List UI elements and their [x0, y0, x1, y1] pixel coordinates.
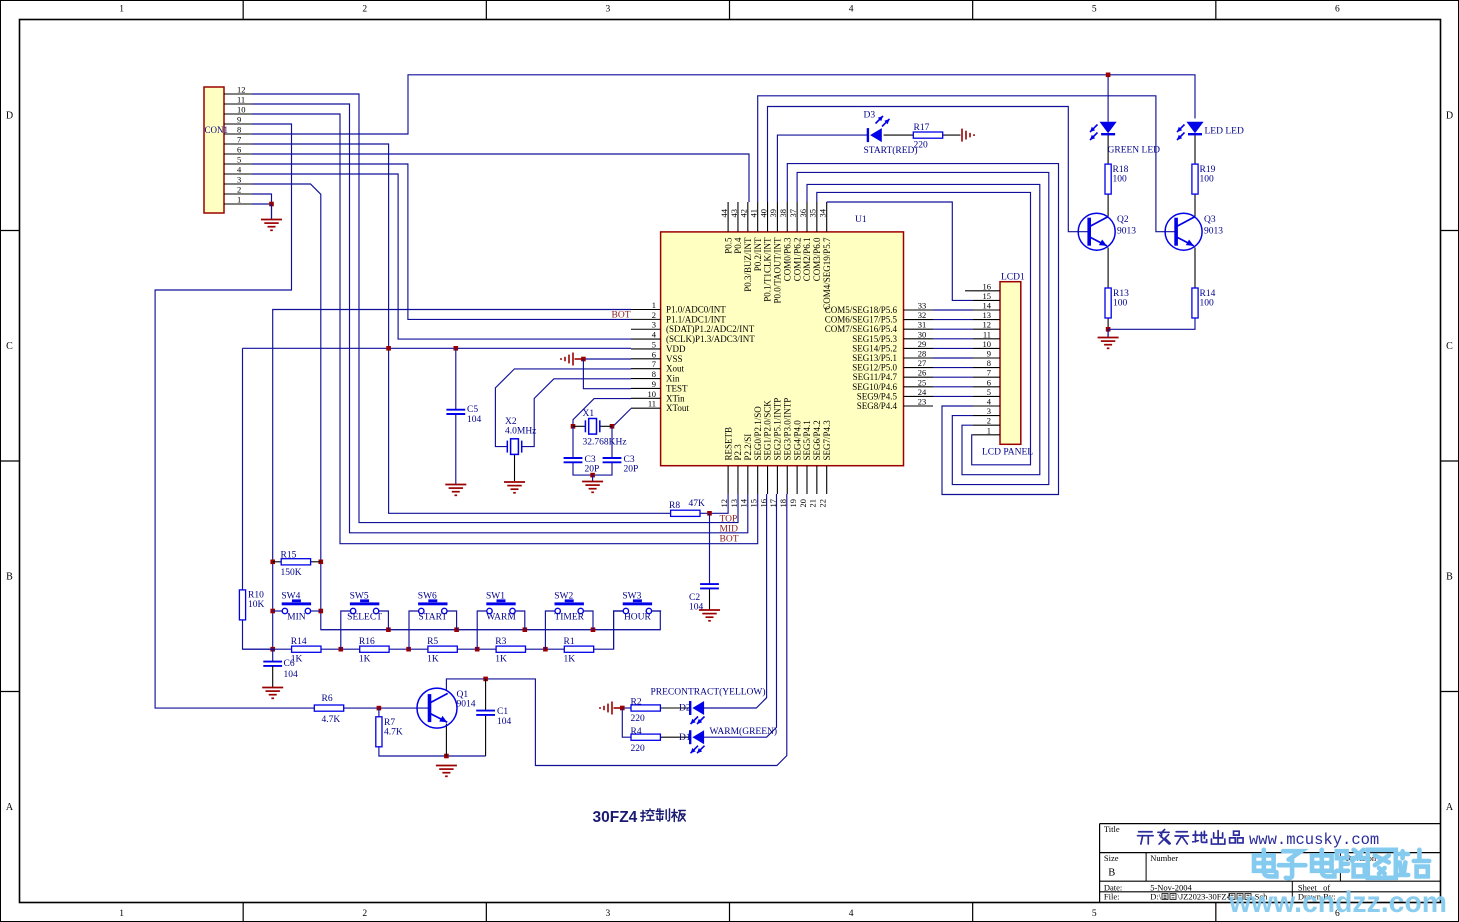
svg-text:25: 25 [918, 377, 927, 387]
svg-text:2: 2 [362, 5, 367, 15]
wire Q2 emitter to R13 [1107, 248, 1109, 288]
svg-text:5: 5 [987, 387, 991, 397]
wire U1 p8 Xin to X2 [522, 379, 631, 447]
svg-text:P0.0/TAOUT/INT: P0.0/TAOUT/INT [773, 237, 783, 304]
svg-text:100: 100 [1200, 299, 1215, 309]
svg-text:2: 2 [987, 416, 991, 426]
wire R13 to ground junction [1107, 319, 1109, 330]
svg-text:Size: Size [1104, 853, 1119, 863]
svg-text:MIN: MIN [287, 613, 306, 623]
svg-text:39: 39 [768, 209, 778, 218]
svg-text:R10: R10 [248, 591, 264, 601]
wire U1 p40 to Q2 base [768, 107, 1091, 232]
junction Q1 emitter [444, 754, 449, 759]
switch SW1 [486, 602, 515, 605]
wire R18 to Q2 collector [1107, 194, 1109, 216]
junction X1 right [610, 424, 615, 429]
svg-text:C2: C2 [689, 593, 700, 603]
svg-text:START: START [418, 613, 447, 623]
svg-text:P2.3: P2.3 [733, 444, 743, 461]
wire C5 to ground [455, 414, 457, 484]
junction RC row 2 [475, 647, 480, 652]
capacitor C3 right [603, 458, 622, 462]
svg-text:9014: 9014 [457, 700, 476, 710]
svg-text:SEG14/P5.2: SEG14/P5.2 [852, 343, 897, 353]
wire D1 to R4 [661, 736, 691, 738]
svg-text:6: 6 [987, 377, 991, 387]
svg-text:3: 3 [652, 320, 656, 330]
svg-text:22: 22 [818, 499, 828, 508]
resistor R15 [281, 559, 310, 565]
wire CON1 p11 to MID row to U1 p14 [252, 104, 748, 533]
junction RC row 3 [543, 647, 548, 652]
wire switch 4 right drop [584, 611, 594, 630]
svg-text:30FZ4: 30FZ4 [593, 809, 638, 826]
svg-text:1K: 1K [495, 655, 507, 665]
junction key bus 1 [454, 627, 459, 632]
svg-text:D: D [1446, 110, 1453, 121]
led GREEN arrows [1090, 125, 1098, 133]
title block grid and fields [1100, 823, 1440, 825]
wire R2 left to junction [622, 707, 631, 709]
resistor R5 [428, 646, 457, 652]
wire CON1 p5 to U1 p2 BOT [252, 164, 631, 319]
svg-text:SEG9/P4.5: SEG9/P4.5 [857, 391, 898, 401]
svg-text:BOT: BOT [612, 311, 631, 321]
wire C5 column [455, 348, 457, 409]
svg-text:1K: 1K [564, 655, 576, 665]
ic U1 body [661, 232, 904, 466]
svg-text:P0.2/INT: P0.2/INT [753, 237, 763, 271]
svg-text:40: 40 [758, 209, 768, 218]
svg-text:SW6: SW6 [418, 592, 437, 602]
svg-text:B: B [6, 571, 13, 582]
wire R6 to Q1 base [344, 707, 431, 709]
svg-text:PRECONTRACT(YELLOW): PRECONTRACT(YELLOW) [651, 687, 766, 698]
svg-text:26: 26 [918, 368, 927, 378]
junction RC row 0 [339, 647, 344, 652]
wire C3 left column [572, 426, 574, 458]
wire R10 bottom to RC row [243, 620, 273, 649]
wire Q3 emitter to R14 [1194, 248, 1196, 288]
svg-text:11: 11 [237, 95, 245, 105]
wire R17 to signal ground [943, 134, 961, 136]
svg-text:2: 2 [237, 185, 241, 195]
resistor R18 [1105, 164, 1111, 194]
svg-text:10: 10 [237, 105, 246, 115]
wire CON1 p7 down to R8 RESET net [252, 144, 671, 513]
resistor R16 [360, 646, 389, 652]
ground under C5 [445, 485, 466, 496]
svg-text:TOP: TOP [720, 515, 738, 525]
svg-text:R4: R4 [631, 727, 642, 737]
wire X1 right lead [600, 425, 612, 427]
svg-text:R2: R2 [631, 698, 642, 708]
svg-text:19: 19 [788, 499, 798, 508]
junction emitter ground [1106, 327, 1111, 332]
connector CON1 [204, 87, 224, 213]
svg-text:8: 8 [652, 369, 656, 379]
wire C6 top [272, 649, 274, 661]
svg-text:104: 104 [467, 415, 482, 425]
wire VSS to TEST [583, 359, 631, 389]
wire LCD p16 stub [965, 290, 973, 292]
svg-text:C1: C1 [497, 707, 508, 717]
wire GREEN LED to R18 [1107, 135, 1109, 165]
svg-text:7: 7 [987, 368, 991, 378]
svg-text:D:\: D:\ [1150, 892, 1162, 902]
svg-text:3: 3 [606, 909, 611, 919]
svg-text:6: 6 [1335, 5, 1340, 15]
wire C1 bottom [485, 715, 487, 756]
svg-text:A: A [6, 802, 14, 813]
svg-text:9: 9 [987, 349, 991, 359]
svg-text:SW4: SW4 [281, 592, 300, 602]
svg-text:1: 1 [237, 195, 241, 205]
svg-text:B: B [1108, 868, 1115, 879]
wire U1 p26 to LCD p7 [933, 376, 973, 378]
svg-text:104: 104 [497, 717, 512, 727]
led LEDLED arrows [1177, 125, 1185, 133]
wire CON1 p10 to BOT row to U1 p15 [252, 114, 758, 544]
junction CON1 ground [269, 202, 274, 207]
wire X1 left lead [573, 425, 585, 427]
signal ground at VSS [575, 358, 584, 360]
junction X1 left [571, 424, 576, 429]
connector LCD1 body [1000, 282, 1021, 445]
wire U1 p17 to D1 [704, 494, 777, 737]
svg-text:WARM: WARM [486, 613, 516, 623]
svg-text:Xout: Xout [666, 364, 684, 374]
svg-text:6: 6 [237, 145, 241, 155]
svg-text:XTout: XTout [666, 403, 689, 413]
svg-text:8: 8 [987, 358, 991, 368]
svg-text:SW1: SW1 [486, 592, 505, 602]
wire U1 p6 VSS to bar ground [583, 358, 631, 360]
svg-text:HOUR: HOUR [624, 613, 652, 623]
svg-text:SEG2/P5.1/INTP: SEG2/P5.1/INTP [773, 398, 783, 461]
ground under R13 [1107, 329, 1109, 337]
wire p34 route [827, 202, 973, 300]
svg-text:5: 5 [237, 155, 241, 165]
U1 left pins 1-11 [631, 309, 661, 311]
resistor R10 [239, 590, 245, 620]
svg-text:9013: 9013 [1117, 227, 1136, 237]
svg-text:D1: D1 [679, 733, 691, 743]
svg-text:R18: R18 [1113, 165, 1129, 175]
junction SW4 left [270, 609, 275, 614]
wire rail branch to GREEN LED [1107, 75, 1109, 122]
title text: kaifatiandi chupin www.mcusky.com [1138, 832, 1154, 844]
junction SW4 right [319, 609, 324, 614]
wire CON1 p2 to ground junction [252, 194, 272, 204]
svg-text:1: 1 [987, 425, 991, 435]
svg-text:SW2: SW2 [554, 592, 573, 602]
svg-text:100: 100 [1200, 175, 1215, 185]
wire RC row [243, 611, 626, 649]
wire VDD row U1 p5 [243, 347, 632, 349]
led GREEN [1100, 122, 1117, 133]
led D3 [867, 128, 869, 142]
transistor Q3 [1165, 213, 1202, 250]
wire C3 ground rail [573, 462, 612, 475]
svg-text:29: 29 [918, 339, 927, 349]
svg-text:Number: Number [1150, 853, 1178, 863]
svg-text:5: 5 [652, 339, 656, 349]
wire U1 p38 to LCD p4 [787, 164, 1058, 495]
svg-text:42: 42 [739, 209, 749, 218]
transistor Q2 [1078, 213, 1115, 250]
svg-text:SEG6/P4.2: SEG6/P4.2 [812, 420, 822, 460]
svg-text:220: 220 [914, 141, 929, 151]
svg-text:16: 16 [983, 281, 992, 291]
svg-text:24: 24 [918, 387, 927, 397]
svg-text:XTin: XTin [666, 393, 685, 403]
wire U1 p30 to LCD p11 [933, 338, 973, 340]
svg-text:R15: R15 [281, 551, 297, 561]
svg-text:14: 14 [983, 301, 992, 311]
resistor R4 [631, 734, 660, 740]
svg-text:LCD PANEL: LCD PANEL [982, 448, 1033, 458]
svg-text:100: 100 [1113, 299, 1128, 309]
svg-text:TEST: TEST [666, 383, 688, 393]
switch SW4 [282, 602, 311, 605]
svg-text:R5: R5 [427, 637, 438, 647]
crystal X1 [585, 419, 599, 435]
svg-text:Xin: Xin [666, 374, 680, 384]
resistor R14 right [1192, 288, 1198, 318]
wire U1 p24 to LCD p5 [933, 395, 973, 397]
svg-text:COM0/P6.3: COM0/P6.3 [782, 237, 792, 281]
svg-text:R13: R13 [1113, 289, 1129, 299]
capacitor C1 [476, 711, 495, 715]
svg-text:7: 7 [237, 135, 241, 145]
switch SW3 [623, 602, 652, 605]
svg-text:1K: 1K [427, 655, 439, 665]
svg-text:SEG5/P4.1: SEG5/P4.1 [802, 420, 812, 460]
svg-text:34: 34 [818, 208, 828, 217]
wire U1 p31 to LCD p12 [933, 328, 973, 330]
wire Q1 emitter down [445, 724, 447, 757]
svg-text:D2: D2 [679, 704, 691, 714]
svg-text:P0.5: P0.5 [723, 237, 733, 254]
svg-text:www.cndzz.com: www.cndzz.com [1228, 886, 1447, 919]
svg-text:COM5/SEG18/P5.6: COM5/SEG18/P5.6 [825, 305, 898, 315]
svg-text:47K: 47K [689, 499, 706, 509]
svg-text:15: 15 [983, 291, 992, 301]
svg-text:28: 28 [918, 349, 927, 359]
svg-text:13: 13 [729, 499, 739, 508]
svg-text:SW3: SW3 [622, 592, 641, 602]
svg-text:COM3/P6.0: COM3/P6.0 [812, 237, 822, 281]
wire U1 p36 to LCD p2 [807, 184, 1040, 474]
svg-text:SEG11/P4.7: SEG11/P4.7 [853, 372, 898, 382]
wire CON1 p6 to U1 p42 [252, 154, 749, 202]
wire U1 p32 to LCD p13 [933, 319, 973, 321]
junction R7 top [377, 706, 382, 711]
wire LED LED to R19 [1194, 135, 1196, 165]
svg-text:1: 1 [119, 909, 124, 919]
svg-text:10: 10 [648, 389, 657, 399]
wire R8 to U1 p12 [700, 494, 728, 513]
resistor R3 [496, 646, 525, 652]
capacitor C3 left [564, 458, 583, 462]
svg-text:220: 220 [631, 714, 646, 724]
ground under X2 [504, 482, 525, 493]
svg-text:20P: 20P [624, 465, 639, 475]
svg-text:41: 41 [748, 209, 758, 218]
resistor R8 [671, 510, 700, 516]
capacitor C6 [263, 662, 282, 666]
svg-text:D: D [6, 110, 13, 121]
wire U1 p35 to LCD p1 [817, 192, 1031, 464]
svg-text:SELECT: SELECT [347, 613, 382, 623]
ground under CON1 [271, 204, 273, 220]
wire switch 1 right drop [379, 611, 389, 630]
wire R15 leads [273, 561, 282, 563]
junction key bus 3 [591, 627, 596, 632]
svg-text:TIMER: TIMER [554, 613, 584, 623]
wire CON1 p8 to top supply rail [252, 75, 1195, 134]
svg-text:R1: R1 [564, 637, 575, 647]
wire U1 p10 XTin to X1 [573, 399, 631, 427]
wire U1 p34 to LCD p15 [826, 201, 828, 203]
svg-text:150K: 150K [281, 568, 302, 578]
svg-text:32.768KHz: 32.768KHz [583, 438, 627, 448]
svg-text:1: 1 [119, 5, 124, 15]
LCD1 pins 16-1 [973, 290, 1000, 292]
svg-text:Title: Title [1104, 824, 1120, 834]
wire U1 p11 XTout to X1 [612, 409, 631, 427]
svg-text:A: A [1446, 802, 1454, 813]
svg-text:R3: R3 [495, 637, 506, 647]
svg-text:4.0MHz: 4.0MHz [505, 427, 536, 437]
svg-text:SEG3/P3.0/INTP: SEG3/P3.0/INTP [782, 398, 792, 461]
wire CON1 p4 to U1 p4 [252, 174, 631, 339]
wire C1 column [485, 679, 487, 711]
svg-text:5: 5 [1092, 5, 1097, 15]
resistor R19 [1192, 164, 1198, 194]
resistor R1 [564, 646, 593, 652]
wire R7 column top [378, 708, 380, 717]
svg-text:C5: C5 [467, 405, 478, 415]
svg-text:10: 10 [983, 339, 992, 349]
junction R15 right [319, 560, 324, 565]
led LEDLED [1186, 122, 1203, 133]
capacitor C2 [700, 584, 719, 588]
capacitor C5 [446, 410, 465, 414]
svg-text:SEG0/P2.1/SO: SEG0/P2.1/SO [753, 406, 763, 461]
svg-text:10K: 10K [248, 600, 265, 610]
resistor R17 [913, 132, 942, 138]
svg-text:C: C [6, 341, 13, 352]
svg-text:C: C [1446, 341, 1453, 352]
svg-text:27: 27 [918, 358, 927, 368]
transistor Q1 [417, 688, 457, 728]
wire U1 p28 to LCD p9 [933, 357, 973, 359]
wire U1 p41 to Q3 base [758, 96, 1178, 232]
junction R15 left [270, 560, 275, 565]
wire CON1 p12 to TOP row to U1 p13 [252, 94, 738, 523]
svg-text:11: 11 [983, 329, 991, 339]
svg-text:R7: R7 [384, 718, 395, 728]
svg-text:COM2/P6.1: COM2/P6.1 [802, 238, 812, 282]
wire SW4 pins [273, 610, 282, 612]
svg-text:30: 30 [918, 329, 927, 339]
wire junction down to R4 [622, 708, 631, 737]
svg-text:4.7K: 4.7K [322, 715, 341, 725]
junction C3 rail [590, 473, 595, 478]
svg-text:U1: U1 [855, 215, 867, 225]
svg-text:X2: X2 [505, 417, 517, 427]
svg-text:X1: X1 [583, 409, 595, 419]
junction VSS [581, 357, 586, 362]
wire C2 to ground [709, 588, 711, 609]
resistor R2 [631, 705, 660, 711]
svg-text:8: 8 [237, 125, 241, 135]
svg-text:37: 37 [788, 209, 798, 218]
wire X2 case to ground [514, 454, 516, 481]
U1 top pins 44-34 [727, 202, 729, 232]
wire D2 to R2 [661, 707, 691, 709]
junction C1 top [483, 677, 488, 682]
switch SW6 [418, 602, 447, 605]
svg-text:Q1: Q1 [457, 690, 469, 700]
svg-text:3: 3 [606, 5, 611, 15]
wire C3 right column [611, 426, 613, 458]
junction VDD to R8 pullup [386, 346, 391, 351]
switch SW2 [555, 602, 584, 605]
svg-text:P0.4: P0.4 [733, 237, 743, 254]
svg-text:7: 7 [652, 359, 656, 369]
watermark dianzidianlutuzhan www.cndzz.com [1254, 850, 1276, 877]
svg-text:P2.2/SI: P2.2/SI [743, 434, 753, 461]
wire U1 p25 to LCD p6 [933, 386, 973, 388]
svg-text:1K: 1K [291, 655, 303, 665]
svg-text:9: 9 [237, 115, 241, 125]
wire Q1 collector rail [446, 494, 786, 766]
svg-text:220: 220 [631, 744, 646, 754]
ground under C2 [699, 610, 720, 621]
svg-text:35: 35 [808, 209, 818, 218]
junction R8 C2 [707, 511, 712, 516]
wire switch 2 left drop [409, 611, 419, 649]
svg-text:MID: MID [720, 525, 739, 535]
junction supply rail [1106, 73, 1111, 78]
switch SW5 [350, 602, 379, 605]
svg-text:RESETB: RESETB [723, 427, 733, 461]
svg-text:SEG12/P5.0: SEG12/P5.0 [852, 363, 897, 373]
svg-text:VDD: VDD [666, 344, 686, 354]
wire C3 rail to ground [592, 475, 594, 481]
wire switch 1 left drop [341, 611, 351, 649]
junction RC row 1 [406, 647, 411, 652]
svg-text:2: 2 [362, 909, 367, 919]
svg-text:P0.3/BUZ/INT: P0.3/BUZ/INT [743, 237, 753, 292]
svg-text:3: 3 [237, 175, 241, 185]
wire D3 to R17 [884, 134, 914, 136]
wire switch 5 left drop [614, 611, 624, 649]
led D1 [689, 730, 691, 744]
svg-text:R14: R14 [291, 637, 307, 647]
svg-text:R19: R19 [1200, 165, 1216, 175]
svg-text:20: 20 [798, 499, 808, 508]
svg-text:SEG7/P4.3: SEG7/P4.3 [822, 420, 832, 461]
wire switch 3 left drop [477, 611, 487, 649]
svg-text:1: 1 [652, 300, 656, 310]
svg-text:C3: C3 [624, 455, 635, 465]
wire U1 p37 to LCD p3 [797, 172, 1049, 484]
